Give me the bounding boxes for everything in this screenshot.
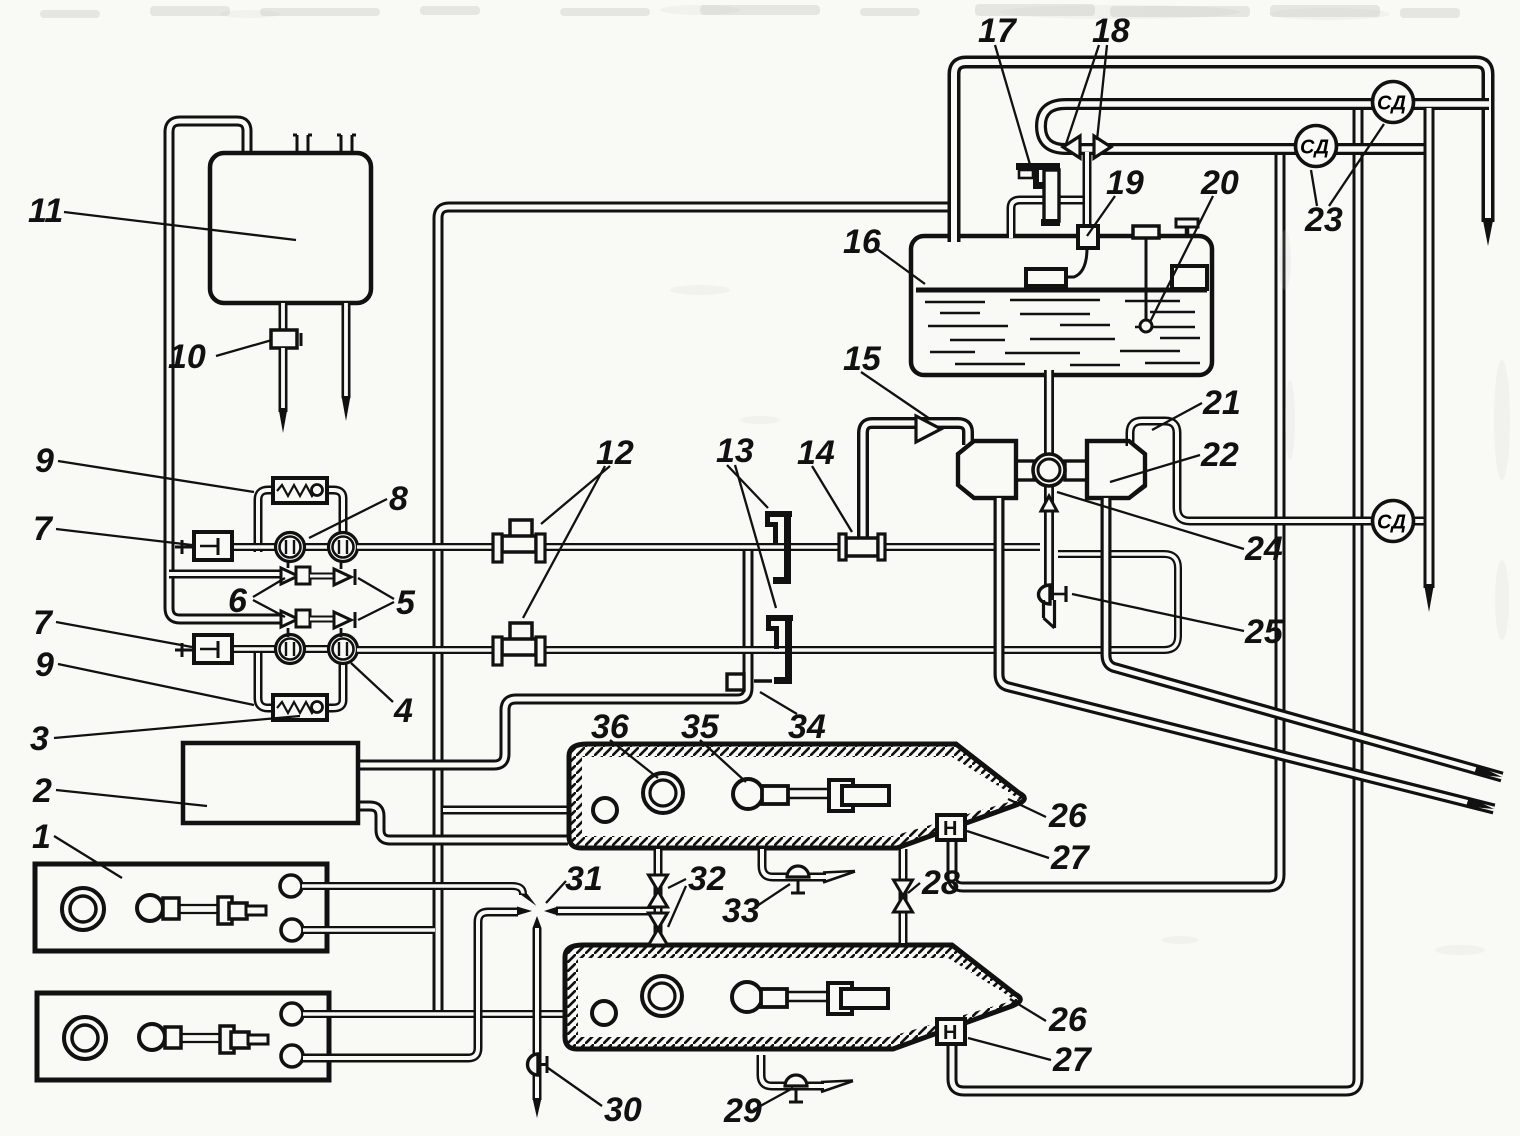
fuel level line in tank 16 [916, 288, 1207, 293]
pipe from shutoff 7a to pump 8a [232, 543, 278, 551]
left pump motor outline redraw [958, 441, 1016, 498]
suction line check vlv 15 branch to tee 14 [863, 423, 968, 540]
svg-text:20: 20 [1200, 164, 1239, 202]
vent double-arrow fitting 18 [1083, 152, 1092, 230]
wing fuel tank 26 upper [569, 744, 1024, 848]
svg-text:27: 27 [1052, 1041, 1093, 1079]
flex coupling 13 upper [765, 511, 792, 517]
crossfeed pipe with valve 28 [899, 849, 908, 943]
vent stubs on tank 11 top [296, 135, 299, 153]
pump 4b [329, 635, 358, 664]
drain line 29 [761, 1055, 824, 1086]
service tank 16 [911, 236, 1212, 375]
svg-text:23: 23 [1304, 201, 1343, 239]
drain valve 25 [1039, 585, 1051, 604]
svg-text:14: 14 [797, 434, 835, 472]
svg-text:13: 13 [716, 432, 754, 470]
pressure sensor CD mid [1296, 126, 1337, 167]
main fuel line upper 12 [357, 543, 1040, 551]
wire loop strainer 9 right to pump 8b [325, 490, 343, 535]
shutoff valve 32 upper [649, 875, 668, 891]
svg-text:21: 21 [1202, 384, 1241, 422]
svg-text:СД: СД [1377, 93, 1406, 115]
float valve 17 [1016, 163, 1060, 170]
check valve 6 lower cone [287, 628, 290, 637]
wire loop to strainer 9 left [258, 490, 276, 552]
flex coupling 13 lower [766, 615, 793, 621]
tank 11 [210, 153, 371, 303]
inlet port upper [593, 798, 617, 822]
svg-text:25: 25 [1244, 613, 1284, 651]
drain cock 30 [528, 1054, 539, 1075]
float gauge sender 36 upper [643, 773, 683, 813]
svg-text:17: 17 [978, 12, 1018, 50]
svg-text:24: 24 [1244, 530, 1283, 568]
fuel level sensor 20 float [1133, 226, 1159, 238]
right transfer pump motor 22 [1087, 441, 1145, 498]
svg-text:27: 27 [1050, 839, 1091, 877]
wing fuel tank 26 lower [565, 945, 1020, 1049]
float switch box right [1172, 266, 1207, 289]
breather pipe loop 18->23 line [1041, 104, 1489, 149]
wire feed to upper wing tank port [443, 806, 588, 815]
svg-text:16: 16 [843, 223, 882, 261]
pump pressure sensor line 23 lower [1130, 421, 1424, 521]
wire from upper panel to junction 31 [302, 886, 523, 895]
svg-text:29: 29 [723, 1092, 762, 1130]
svg-text:34: 34 [788, 708, 826, 746]
svg-text:5: 5 [396, 584, 416, 622]
drain valve 29 plunger [785, 1075, 807, 1086]
junction 31 down pipe to drain cock 30 [533, 928, 542, 1100]
shutoff valve 32 lower [649, 913, 668, 929]
svg-text:30: 30 [604, 1091, 642, 1129]
svg-text:СД: СД [1377, 512, 1406, 534]
wire long pipe from top run down to lower wing feed [438, 207, 949, 1013]
float gauge sender 36 lower [642, 976, 682, 1016]
wire pipe from pump unit 2 up to main line via fitting 34 [355, 550, 748, 765]
pressure sensor CD top [1373, 82, 1414, 123]
check valve 6 upper cone [287, 561, 290, 568]
svg-text:4: 4 [393, 692, 413, 730]
check valve 5 upper cone [340, 561, 343, 569]
control panel 1 upper [35, 864, 327, 951]
control panel 1 lower [37, 993, 329, 1080]
pump unit 2 [183, 743, 358, 823]
check valve 24 triangle [1041, 496, 1057, 511]
svg-text:26: 26 [1048, 797, 1088, 835]
valve 10 [271, 330, 297, 348]
svg-text:12: 12 [596, 434, 634, 472]
pressure line from lower wing pump 27 to sensor [952, 107, 1358, 1091]
shutoff valve 7a [194, 532, 232, 560]
check valve 15 cone [916, 416, 941, 442]
wire left vertical pipe from tank 11 to valve row [169, 121, 283, 619]
svg-text:10: 10 [168, 338, 206, 376]
svg-text:11: 11 [28, 192, 63, 230]
left transfer pump motor [958, 441, 1016, 498]
svg-text:22: 22 [1200, 436, 1239, 474]
pump coupling stubs [1016, 461, 1034, 480]
svg-text:3: 3 [30, 720, 49, 758]
panel outlet ports lower [281, 1003, 303, 1025]
svg-text:33: 33 [722, 892, 760, 930]
transfer pipe with valves 32 [654, 849, 663, 943]
panel outlet ports upper [280, 875, 302, 897]
svg-text:19: 19 [1106, 164, 1144, 202]
svg-text:СД: СД [1300, 137, 1329, 159]
wire loop strainer 3 right to pump 4b [325, 664, 343, 708]
motor drain diagonal right [1106, 498, 1502, 777]
branch pipe to check valve 6 upper [169, 570, 283, 579]
booster pump H lower [937, 1019, 965, 1044]
wire loop to strainer 3 left [258, 645, 276, 708]
inlet fitting 19 [1078, 226, 1098, 248]
fuel pickup unit 35 lower [732, 982, 762, 1012]
pump 8b [329, 533, 358, 562]
svg-text:32: 32 [688, 860, 726, 898]
pipe riser from float valve 17 [1011, 200, 1086, 238]
svg-text:8: 8 [389, 480, 408, 518]
svg-text:9: 9 [35, 442, 54, 480]
pipe coupling 12 lower [510, 623, 532, 645]
svg-text:2: 2 [32, 772, 52, 810]
drain line 33 [762, 849, 826, 877]
wire from upper panel into long pipe [303, 926, 435, 934]
svg-text:7: 7 [33, 510, 54, 548]
tank 11 left drain pipe [279, 303, 288, 412]
wire from lower panel to wing tank port [303, 1010, 592, 1018]
svg-text:H: H [943, 1022, 957, 1044]
check valve 5 lower cone [340, 628, 343, 637]
pressure line from upper wing pump 27 to sensor [952, 152, 1280, 887]
fitting 34 [727, 674, 744, 690]
junction 31 outgoing right [556, 907, 654, 916]
motor drain diagonal left [999, 498, 1494, 809]
right pump motor outline redraw [1087, 441, 1145, 498]
svg-text:31: 31 [565, 860, 603, 898]
fuel texture dashes [925, 301, 985, 304]
drain valve 33 plunger [787, 866, 809, 877]
svg-text:H: H [943, 818, 957, 840]
shutoff valve 28 [894, 880, 913, 896]
suction inlet bevel tip [1042, 600, 1045, 618]
spray nozzle box in tank [1026, 269, 1066, 286]
pressure sensor CD lower [1373, 501, 1414, 542]
left supply pipe into tank 16 + overflow line [954, 62, 1488, 242]
tee fitting 14 [846, 538, 878, 556]
svg-text:9: 9 [35, 646, 54, 684]
tank 11 right drain pipe [342, 303, 351, 398]
svg-text:6: 6 [228, 582, 248, 620]
filter strainer 9 [273, 478, 327, 503]
wire from lower panel up to junction 31 [303, 912, 518, 1058]
svg-text:1: 1 [32, 818, 51, 856]
wire pipe from pump unit 2 to wing tank 26 lower feed [355, 806, 568, 840]
inlet port lower [592, 1001, 616, 1025]
main fuel line lower 12 [357, 554, 1178, 650]
fuel pickup unit 35 upper [733, 779, 763, 809]
filler cap 20 [1185, 226, 1190, 236]
pipe coupling 12 upper [510, 520, 532, 542]
pump 8a [276, 533, 305, 562]
booster pump H upper [937, 815, 965, 840]
tank 16 outlet pipe down to pump [1044, 370, 1054, 600]
pump center unit 24 [1033, 454, 1065, 486]
drain riser with tip under sensor line [1424, 108, 1435, 588]
svg-text:28: 28 [921, 864, 960, 902]
filter strainer 3 [273, 695, 327, 720]
shutoff valve 7b [194, 635, 232, 663]
pump 4a [276, 635, 305, 664]
pipe from shutoff 7b to pump 4a [232, 645, 278, 653]
svg-text:26: 26 [1048, 1001, 1088, 1039]
svg-text:7: 7 [33, 604, 54, 642]
